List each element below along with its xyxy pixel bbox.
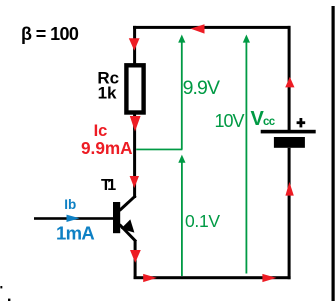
svg-text:0.1V: 0.1V — [185, 211, 220, 231]
svg-text:10V: 10V — [215, 111, 245, 131]
base current arrow Ib (pointing right) — [67, 215, 80, 222]
battery negative plate (short thick) — [274, 137, 305, 148]
wire bottom horizontal — [134, 276, 291, 279]
current arrow on emitter wire (pointing down) — [130, 250, 141, 263]
svg-text:9.9mA: 9.9mA — [81, 138, 133, 158]
measurement arrow 10V (vertical, head up) — [246, 39, 248, 274]
svg-text:1k: 1k — [98, 84, 117, 103]
current arrow below battery (pointing up) — [285, 182, 293, 196]
battery Vcc positive plate (long) — [261, 130, 316, 134]
wire resistor bottom to transistor collector — [133, 112, 136, 198]
wire right vertical below battery — [288, 148, 291, 279]
current arrow bottom-left (pointing right) — [143, 274, 157, 282]
current arrow on top wire (pointing left) — [191, 24, 205, 33]
resistor Rc body — [126, 65, 143, 112]
measurement arrow 0.1V (vertical, head up) — [181, 160, 183, 276]
current arrow below resistor (pointing down) — [130, 116, 141, 132]
svg-text:β = 100: β = 100 — [21, 24, 79, 44]
svg-text:Ib: Ib — [64, 197, 76, 212]
border frame line (right edge) — [332, 6, 335, 301]
svg-text:9.9V: 9.9V — [183, 77, 220, 99]
wire right vertical above battery — [288, 26, 291, 130]
svg-text:1mA: 1mA — [56, 222, 94, 243]
current arrow above transistor collector (pointing down) — [130, 176, 139, 188]
transistor collector diagonal — [120, 196, 136, 211]
wire left vertical top (to resistor) — [133, 26, 136, 65]
transistor emitter diagonal — [120, 225, 137, 242]
transistor Q1 base bar — [113, 202, 120, 233]
wire top horizontal — [133, 26, 291, 29]
current arrow above battery (pointing up) — [285, 77, 294, 88]
current arrow below top-left corner (pointing down) — [129, 38, 140, 50]
measurement arrow 9.9V (vertical, head up) — [181, 39, 183, 150]
svg-text:T1: T1 — [101, 177, 116, 194]
transistor emitter arrowhead — [121, 219, 134, 232]
battery polarity label + — [297, 121, 306, 124]
green level line from collector node — [136, 149, 182, 151]
stray crop mark 2 (bottom left) — [8, 299, 10, 301]
current arrow bottom-right (pointing right) — [262, 274, 276, 282]
wire base horizontal — [34, 217, 113, 220]
wire emitter vertical — [134, 240, 137, 279]
stray crop mark 1 (bottom left) — [0, 286, 2, 288]
